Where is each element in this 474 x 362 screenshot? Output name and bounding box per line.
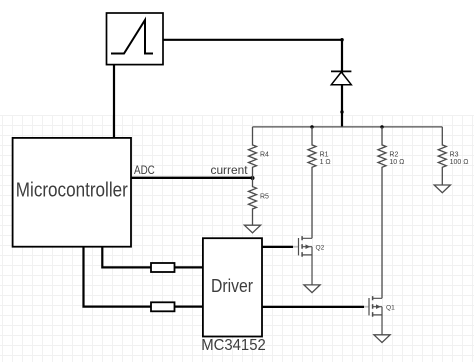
wire: resistor box 2 to driver	[175, 306, 203, 308]
wire: resistor box 1 to driver	[175, 266, 203, 268]
resistor R3	[438, 127, 468, 185]
ADC wire to current node	[131, 177, 253, 179]
resistor R2	[378, 127, 404, 298]
svg-text:Microcontroller: Microcontroller	[16, 179, 128, 202]
wire: MCU to driver input 2	[84, 246, 152, 307]
ground below Q1	[374, 335, 390, 343]
svg-text:ADC: ADC	[134, 165, 155, 177]
wire: generator bottom to microcontroller top	[113, 65, 115, 139]
svg-text:1 Ω: 1 Ω	[320, 159, 331, 166]
svg-text:Driver: Driver	[211, 276, 253, 296]
gate resistor box 1	[151, 263, 175, 272]
diode D1	[331, 71, 351, 84]
wire: driver output to Q1 gate	[262, 306, 364, 308]
wire: MCU to driver input 1	[102, 246, 151, 267]
svg-text:current: current	[211, 165, 249, 177]
ground below Q2	[304, 285, 320, 293]
resistor R1	[308, 127, 331, 238]
wire: driver output to Q2 gate	[262, 246, 293, 248]
wire: generator output to diode corner	[163, 39, 342, 41]
microcontroller U1	[13, 138, 131, 247]
svg-text:R2: R2	[389, 151, 398, 158]
driver U2 MC34152	[201, 238, 266, 354]
svg-text:10 Ω: 10 Ω	[389, 159, 404, 166]
mosfet Q2	[299, 236, 325, 285]
mosfet Q1	[369, 296, 395, 335]
junction dot R2/bus	[380, 125, 383, 128]
wire: corner down through diode to bus	[341, 40, 343, 127]
gate resistor box 2	[151, 302, 175, 311]
svg-text:Q1: Q1	[386, 305, 395, 312]
resistor R4	[249, 127, 270, 178]
ground below R3	[434, 185, 450, 193]
junction dot above bus	[340, 110, 343, 113]
svg-text:MC34152: MC34152	[201, 337, 266, 354]
svg-text:R3: R3	[450, 151, 459, 158]
svg-text:100 Ω: 100 Ω	[450, 159, 469, 166]
bus wire	[253, 126, 443, 128]
svg-text:R1: R1	[320, 151, 329, 158]
junction dot at corner	[340, 38, 344, 42]
ground below R5	[244, 225, 260, 233]
resistor R5	[249, 178, 270, 225]
svg-text:R4: R4	[260, 152, 269, 159]
wire: thin gate lead Q1	[364, 306, 369, 308]
node current (junction dot)	[251, 176, 255, 180]
svg-text:Q2: Q2	[316, 245, 325, 252]
wire: thin gate lead Q2	[293, 246, 299, 248]
svg-text:R5: R5	[260, 193, 269, 200]
junction dot R1/bus	[310, 125, 313, 128]
sawtooth generator	[107, 13, 164, 65]
